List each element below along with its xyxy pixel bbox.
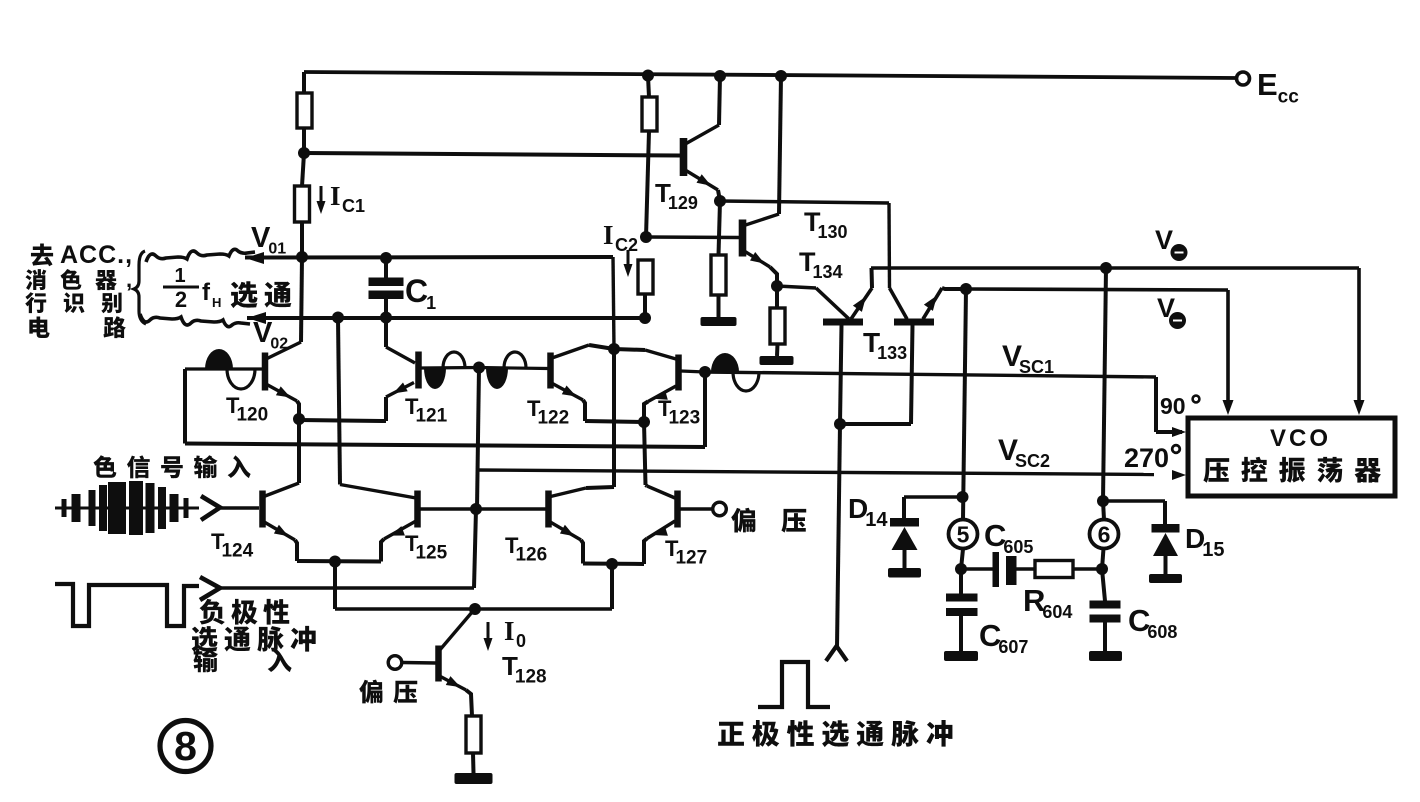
svg-text:C1: C1	[342, 196, 365, 216]
svg-text:E: E	[1257, 67, 1278, 102]
svg-text:15: 15	[1202, 539, 1224, 561]
svg-text:SC2: SC2	[1015, 451, 1050, 471]
svg-text:ACC.,: ACC.,	[60, 241, 133, 269]
svg-text:129: 129	[668, 193, 698, 213]
svg-text:122: 122	[537, 408, 569, 429]
svg-text:134: 134	[812, 262, 842, 282]
svg-text:608: 608	[1147, 622, 1177, 642]
svg-text:1: 1	[426, 293, 436, 313]
svg-text:H: H	[212, 295, 221, 310]
svg-text:2: 2	[175, 287, 187, 312]
svg-text:cc: cc	[1278, 87, 1300, 108]
svg-text:127: 127	[675, 548, 707, 569]
svg-text:120: 120	[236, 405, 268, 426]
svg-text:0: 0	[516, 631, 526, 651]
svg-text:123: 123	[668, 408, 700, 429]
svg-text:124: 124	[221, 541, 253, 562]
svg-text:VCO: VCO	[1270, 425, 1331, 452]
svg-text:607: 607	[998, 637, 1028, 657]
svg-text:5: 5	[957, 522, 970, 548]
svg-text:90: 90	[1160, 393, 1186, 419]
svg-text:01: 01	[268, 240, 286, 257]
svg-text:f: f	[202, 279, 211, 306]
svg-text:133: 133	[877, 343, 907, 363]
svg-text:605: 605	[1003, 537, 1033, 557]
svg-text:14: 14	[865, 509, 888, 531]
svg-text:,: ,	[126, 267, 132, 292]
svg-text:C: C	[405, 273, 428, 309]
svg-text:I: I	[330, 181, 341, 211]
svg-text:6: 6	[1098, 522, 1111, 548]
svg-text:270: 270	[1124, 443, 1169, 473]
svg-text:1: 1	[174, 265, 185, 287]
svg-text:125: 125	[415, 543, 447, 564]
svg-text:604: 604	[1042, 602, 1072, 622]
svg-text:I: I	[603, 220, 614, 250]
svg-text:C2: C2	[615, 235, 638, 255]
svg-text:I: I	[504, 616, 515, 646]
svg-text:121: 121	[415, 406, 447, 427]
svg-text:130: 130	[817, 222, 847, 242]
svg-text:128: 128	[515, 667, 547, 688]
svg-text:126: 126	[515, 545, 547, 566]
svg-text:SC1: SC1	[1019, 357, 1054, 377]
svg-text:8: 8	[174, 723, 197, 769]
svg-text:V: V	[1155, 225, 1173, 255]
